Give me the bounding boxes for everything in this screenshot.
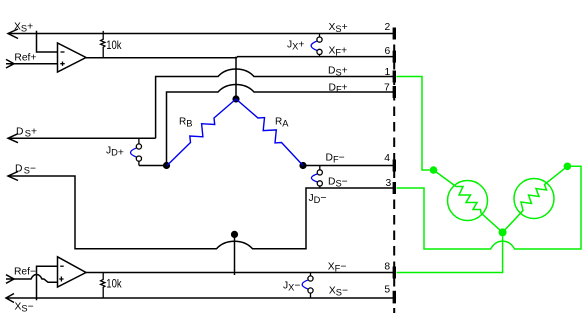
svg-text:4: 4 bbox=[384, 153, 390, 164]
svg-text:JD−: JD− bbox=[309, 193, 327, 205]
jumper JX+ bbox=[311, 34, 322, 57]
svg-text:6: 6 bbox=[385, 46, 391, 57]
arrow Ref+ bbox=[6, 59, 14, 68]
sensor RTD 2 bbox=[514, 179, 554, 219]
arrow DS- bbox=[8, 172, 18, 181]
svg-text:XS−: XS− bbox=[15, 302, 34, 313]
wire DS- (left, down, across with hop, up to pin 3) bbox=[8, 176, 394, 249]
svg-text:XS+: XS+ bbox=[329, 22, 348, 34]
wire XF- branch vertical bbox=[234, 234, 236, 275]
resistor RA bbox=[236, 99, 303, 166]
jumper JD+ bbox=[131, 138, 142, 165]
svg-text:3: 3 bbox=[386, 178, 392, 189]
connector dashed line bbox=[393, 29, 395, 313]
svg-text:DS+: DS+ bbox=[16, 127, 37, 139]
jumper JX- bbox=[302, 273, 313, 299]
svg-text:10k: 10k bbox=[106, 276, 121, 290]
svg-text:XS−: XS− bbox=[329, 286, 348, 298]
wire DS+ sense (green) bbox=[397, 77, 430, 171]
wire XF- (U2 output) bbox=[86, 272, 394, 274]
pin 4 tick bbox=[393, 160, 396, 172]
wire DF- bbox=[303, 165, 394, 167]
wire XS+ bbox=[8, 33, 394, 35]
svg-text:2: 2 bbox=[385, 22, 391, 33]
svg-text:JD+: JD+ bbox=[106, 146, 124, 159]
pin 3 tick bbox=[393, 182, 396, 194]
svg-text:Ref+: Ref+ bbox=[14, 52, 36, 63]
arrow DS+ bbox=[8, 134, 18, 143]
wire sensor 2 element bbox=[503, 166, 568, 232]
wire Ref+ bbox=[6, 63, 58, 65]
node sensors common (green) bbox=[499, 228, 507, 236]
node sensor 2 top (green) bbox=[564, 163, 572, 171]
wire XS- to U2 inverting input bbox=[37, 266, 58, 300]
pin 6 tick bbox=[393, 51, 396, 63]
resistor 10k (bottom) bbox=[101, 273, 105, 298]
svg-text:XF+: XF+ bbox=[329, 46, 348, 58]
svg-text:8: 8 bbox=[384, 262, 390, 273]
svg-text:10k: 10k bbox=[106, 38, 121, 52]
op-amp U2 bbox=[58, 257, 87, 287]
pin 2 tick bbox=[393, 28, 396, 40]
svg-text:XF−: XF− bbox=[328, 262, 347, 274]
resistor RB bbox=[167, 99, 236, 166]
node bridge right bbox=[299, 162, 306, 169]
wire DS- sense (green) with hop bbox=[397, 166, 582, 249]
svg-text:DS−: DS− bbox=[328, 177, 348, 189]
wire bridge top vertical bbox=[235, 57, 237, 99]
pin 7 tick bbox=[393, 86, 396, 98]
svg-text:DF+: DF+ bbox=[329, 83, 348, 95]
svg-text:1: 1 bbox=[385, 67, 391, 78]
arrow Ref- bbox=[6, 275, 14, 284]
svg-text:XS+: XS+ bbox=[14, 22, 33, 34]
svg-text:Ref−: Ref− bbox=[14, 267, 36, 278]
svg-text:DS−: DS− bbox=[15, 163, 36, 175]
wire XS- bbox=[6, 297, 394, 299]
svg-text:DF−: DF− bbox=[326, 152, 345, 164]
wire Ref- with hop bbox=[6, 275, 58, 283]
svg-text:5: 5 bbox=[384, 284, 390, 295]
op-amp U1 bbox=[58, 43, 87, 72]
resistor 10k (top) bbox=[101, 31, 105, 58]
svg-text:DS+: DS+ bbox=[328, 66, 348, 78]
node bridge top bbox=[232, 95, 239, 102]
wire XF- sense (green) bbox=[397, 236, 503, 272]
pin 8 tick bbox=[393, 267, 396, 279]
node bridge left bbox=[163, 162, 170, 169]
pin 1 tick bbox=[393, 71, 396, 83]
wire XF+ (U1 output) bbox=[86, 57, 394, 58]
svg-text:RA: RA bbox=[275, 117, 289, 129]
arrow XS+ bbox=[8, 29, 18, 39]
arrow XS- bbox=[6, 294, 14, 303]
pin 5 tick bbox=[393, 291, 396, 304]
svg-text:JX−: JX− bbox=[283, 281, 300, 293]
svg-text:RB: RB bbox=[179, 117, 192, 129]
node sensor 1 top (green) bbox=[430, 166, 438, 174]
svg-text:7: 7 bbox=[384, 83, 390, 94]
wire DS+ (left) bbox=[8, 137, 156, 139]
wire sensor 1 element bbox=[434, 170, 503, 232]
node XF- branch bbox=[231, 231, 238, 238]
jumper JD- bbox=[311, 166, 322, 189]
wire DF+ from bridge left node to pin 7 with hop bbox=[167, 85, 394, 166]
sensor RTD 1 bbox=[448, 181, 488, 221]
wire jumper JD+ to bridge left node bbox=[139, 165, 167, 167]
svg-text:JX+: JX+ bbox=[287, 40, 304, 52]
wire DS+ riser and pin 1 line with hop bbox=[156, 69, 394, 138]
wire XS+ to U1 inverting input bbox=[37, 31, 58, 52]
